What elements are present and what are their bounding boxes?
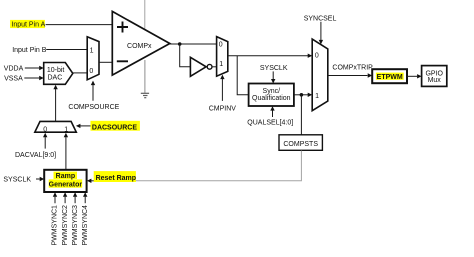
svg-text:1: 1	[64, 126, 68, 133]
node DACVAL[9:0] input	[44, 137, 46, 149]
wire comparator output	[170, 43, 217, 45]
node PWMSYNC4 input	[84, 197, 86, 204]
svg-text:DACVAL[9:0]: DACVAL[9:0]	[15, 152, 56, 159]
svg-text:Input Pin A: Input Pin A	[11, 22, 45, 29]
svg-text:PWMSYNC1: PWMSYNC1	[52, 205, 59, 246]
wire mux output to comparator inverting input	[99, 61, 112, 63]
svg-text:0: 0	[43, 126, 47, 133]
wire branch to inverter	[180, 44, 191, 67]
op-amp COMPx comparator	[112, 11, 170, 75]
wire CMPINV output to sync mux input 0	[228, 55, 308, 57]
svg-text:10-bit: 10-bit	[47, 67, 65, 74]
svg-text:Input Pin B: Input Pin B	[12, 47, 47, 54]
wire Sync/Qualification output to sync mux input 1	[294, 94, 308, 96]
node junction on sync output	[300, 93, 304, 97]
wire ramp generator to mux input 1	[65, 137, 67, 170]
svg-text:PWMSYNC2: PWMSYNC2	[62, 205, 69, 246]
node PWMSYNC3 input	[74, 197, 76, 204]
svg-text:SYSCLK: SYSCLK	[260, 65, 288, 72]
svg-text:CMPINV: CMPINV	[209, 105, 237, 112]
node Input Pin A label	[10, 20, 45, 28]
node PWMSYNC2 input	[64, 197, 66, 204]
node Reset Ramp	[87, 179, 92, 183]
block Sync/Qualification	[249, 84, 294, 107]
svg-text:DAC: DAC	[48, 74, 63, 81]
node PWMSYNC1 input	[54, 197, 56, 204]
mux SYNCSEL 2:1	[312, 39, 328, 111]
plus input mark	[117, 22, 128, 33]
inverter	[190, 57, 206, 76]
node COMPSOURCE select	[92, 84, 94, 101]
wire branch down to Sync/Qualification	[237, 56, 248, 95]
svg-text:QUALSEL[4:0]: QUALSEL[4:0]	[247, 119, 293, 126]
svg-text:COMPxTRIP: COMPxTRIP	[332, 64, 373, 71]
wire VSSA	[24, 77, 39, 79]
svg-text:SYSCLK: SYSCLK	[3, 177, 31, 184]
svg-text:ETPWM: ETPWM	[377, 74, 403, 81]
wire top stub above comparator	[144, 0, 146, 29]
svg-text:COMPSOURCE: COMPSOURCE	[68, 104, 119, 111]
svg-text:Reset Ramp: Reset Ramp	[96, 175, 136, 182]
wire COMPxTRIP output	[328, 75, 368, 77]
wire junction down to COMPSTS	[300, 95, 302, 135]
node CMPINV select	[221, 79, 223, 101]
wire Input Pin B	[46, 49, 87, 51]
svg-text:PWMSYNC3: PWMSYNC3	[72, 205, 79, 246]
mux CMPINV 2:1	[217, 37, 228, 77]
svg-text:1: 1	[90, 47, 94, 54]
block COMPSTS	[279, 135, 322, 151]
svg-text:COMPx: COMPx	[127, 43, 152, 50]
ground	[144, 60, 146, 93]
mux COMPSOURCE 2:1	[87, 37, 99, 80]
svg-text:SYNCSEL: SYNCSEL	[304, 15, 337, 22]
svg-text:COMPSTS: COMPSTS	[283, 141, 318, 148]
wire DAC output to mux 0	[73, 72, 87, 74]
svg-text:0: 0	[219, 42, 223, 49]
svg-text:DACSOURCE: DACSOURCE	[92, 124, 137, 131]
block ETPWM	[372, 69, 407, 83]
svg-text:0: 0	[89, 68, 93, 75]
wire DACSOURCE mux output to DAC	[55, 89, 57, 121]
DAC U1 10-bit DAC	[44, 63, 73, 85]
node output junction	[178, 42, 182, 46]
svg-text:Sync/: Sync/	[263, 88, 281, 95]
svg-text:Mux: Mux	[428, 77, 442, 84]
mux DACSOURCE 2:1	[35, 121, 77, 132]
svg-text:VSSA: VSSA	[4, 76, 23, 83]
svg-text:1: 1	[219, 61, 223, 68]
wire Reset Ramp feedback (gray)	[135, 151, 301, 181]
wire inverter output	[212, 66, 217, 68]
node DACSOURCE select	[91, 121, 140, 131]
wire Input Pin A	[46, 24, 113, 26]
svg-text:PWMSYNC4: PWMSYNC4	[82, 205, 89, 246]
node QUALSEL[4:0] select	[272, 110, 274, 117]
wire VDDA	[25, 67, 40, 69]
wire ETPWM to GPIO Mux	[407, 75, 417, 77]
minus input mark	[117, 60, 128, 62]
svg-text:0: 0	[315, 52, 319, 59]
block Ramp Generator	[44, 170, 86, 192]
svg-text:VDDA: VDDA	[4, 66, 24, 73]
block GPIO Mux	[422, 66, 447, 87]
svg-text:1: 1	[315, 93, 319, 100]
svg-text:Qualification: Qualification	[252, 95, 291, 102]
svg-text:Ramp: Ramp	[56, 173, 75, 180]
svg-text:Generator: Generator	[49, 181, 83, 188]
